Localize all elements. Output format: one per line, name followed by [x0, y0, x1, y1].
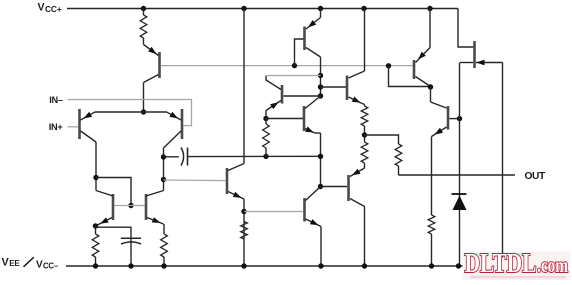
resistor R9 [428, 215, 435, 266]
wire TL base stub [115, 205, 132, 207]
transistor TR [146, 191, 164, 225]
wire VCC+ top rail [67, 9, 474, 48]
node bias rail junction F [292, 63, 297, 68]
svg-text:V: V [2, 257, 10, 269]
capacitor C1 [164, 148, 321, 166]
transistor Q10 [431, 102, 460, 137]
wire QL base [244, 211, 303, 213]
node cap-line resistor junction [263, 154, 268, 159]
node center column junction J [318, 93, 323, 98]
node bottom-rail junction L [128, 263, 133, 268]
wire Q3 collector to tail [143, 83, 145, 113]
wire Q8 collector drop [364, 207, 366, 267]
wire Qu emitter drop [320, 133, 322, 187]
node bottom-rail junction Q [429, 263, 434, 268]
wire IN+ lead [68, 126, 79, 128]
diode D1 [452, 194, 467, 210]
node Q9 collector junction [428, 84, 433, 89]
wire Q5 collector tie [266, 75, 321, 77]
transistor Q5 [266, 76, 321, 111]
resistor R6 [361, 105, 368, 136]
wire Q11 collector drop [459, 63, 461, 267]
node Q5 emitter junction [263, 116, 268, 121]
node mirror base center [128, 203, 133, 208]
label VEE/VCC- [2, 257, 59, 271]
wire TR base stub [131, 205, 145, 207]
wire Q1 collector drop [95, 142, 97, 191]
wire input emitter rail [95, 111, 168, 113]
node Q10 base junction [457, 116, 462, 121]
resistor R7 [361, 135, 368, 168]
svg-text:DLTDL: DLTDL [465, 248, 537, 278]
node comp-cap tap junction [161, 154, 166, 159]
resistor R2 [92, 226, 99, 266]
node resistor-stack mid junction [362, 132, 367, 137]
wire Q9/Q10 collector link [430, 87, 432, 102]
wire Q9 emitter to rail [429, 9, 431, 48]
wire IN- lead [68, 100, 192, 126]
transistor Q6 [227, 164, 244, 200]
resistor R1 [140, 9, 147, 45]
node top-rail junction D [361, 6, 366, 11]
node bottom-rail junction N [241, 263, 246, 268]
wire QL emitter drop [320, 227, 322, 267]
transistor Q7 [321, 71, 365, 105]
node top-rail junction C [318, 6, 323, 11]
capacitor C2 [121, 238, 141, 244]
svg-text:IN+: IN+ [49, 122, 63, 132]
wire base bias rail [161, 65, 414, 67]
node TL emitter junction [93, 223, 98, 228]
node center column junction H [318, 73, 323, 78]
wire Q10 emitter drop [431, 137, 433, 216]
node mirror-right junction [161, 177, 166, 182]
transistor Q1 [80, 109, 97, 142]
node bottom-rail junction K [93, 263, 98, 268]
node bias rail junction G [386, 63, 391, 68]
wire Q4 emitter to rail [320, 9, 322, 18]
svg-text:EE: EE [9, 259, 20, 268]
node bottom-rail junction P [362, 263, 367, 268]
wire VCC drop to Q6 [243, 9, 245, 164]
node Q1/TL collector junction [93, 175, 98, 180]
transistor Q4 [295, 18, 321, 66]
transistor Q2 [164, 109, 183, 148]
transistor Q8 [321, 168, 365, 207]
transistor Q11 [460, 41, 503, 68]
wire Q11 emitter drop [502, 63, 504, 267]
resistor R3 [161, 234, 168, 266]
transistor TL [96, 191, 113, 226]
resistor R5 [263, 124, 270, 156]
wire cap C2 top lead [96, 227, 132, 266]
transistor QL [305, 187, 322, 227]
node bottom-rail junction O [318, 263, 323, 268]
wire OUT line [399, 174, 516, 176]
transistor Q3 [144, 45, 160, 83]
node bottom-rail junction R [456, 263, 461, 268]
svg-text:OUT: OUT [525, 171, 546, 182]
wire TR emitter drop [163, 224, 165, 234]
label VCC+ [38, 2, 62, 14]
node QL collector junction [318, 184, 323, 189]
transistor Q9 [414, 48, 431, 87]
svg-text:CC+: CC+ [45, 4, 62, 14]
node Q6 emitter / QL base junction [241, 209, 246, 214]
wire VEE bottom rail [66, 265, 503, 267]
node cap line end junction [318, 154, 323, 159]
resistor R4 [241, 222, 248, 240]
watermark DLTDL.com [463, 248, 571, 280]
node center column junction I [318, 84, 323, 89]
wire Q7 collector to rail [364, 9, 366, 72]
wire center node column [320, 57, 322, 96]
node bottom-rail junction M [161, 263, 166, 268]
wire Q2 collector drop [163, 148, 165, 191]
svg-text:.com: .com [537, 253, 568, 277]
transistor Qu [304, 96, 321, 133]
svg-text:V: V [36, 260, 43, 271]
label IN- [49, 95, 63, 105]
node top-rail junction B [241, 6, 246, 11]
wire Q5 emitter drop [265, 111, 267, 125]
wire Q6 emitter drop [243, 199, 245, 266]
node input tail junction [141, 109, 146, 114]
wire Q6 base [164, 179, 227, 182]
label OUT [525, 171, 546, 182]
resistor R8 [395, 144, 402, 175]
wire out-resistor top lead [365, 135, 399, 144]
node top-rail junction A [141, 6, 146, 11]
wire bias L-tie [389, 66, 430, 87]
label IN+ [49, 122, 63, 132]
svg-text:IN–: IN– [49, 95, 63, 105]
node top-rail junction E [427, 6, 432, 11]
svg-text:CC–: CC– [43, 262, 59, 271]
wire mirror base tie [96, 178, 131, 206]
svg-text:V: V [38, 2, 45, 14]
wire Qu base [266, 118, 303, 120]
